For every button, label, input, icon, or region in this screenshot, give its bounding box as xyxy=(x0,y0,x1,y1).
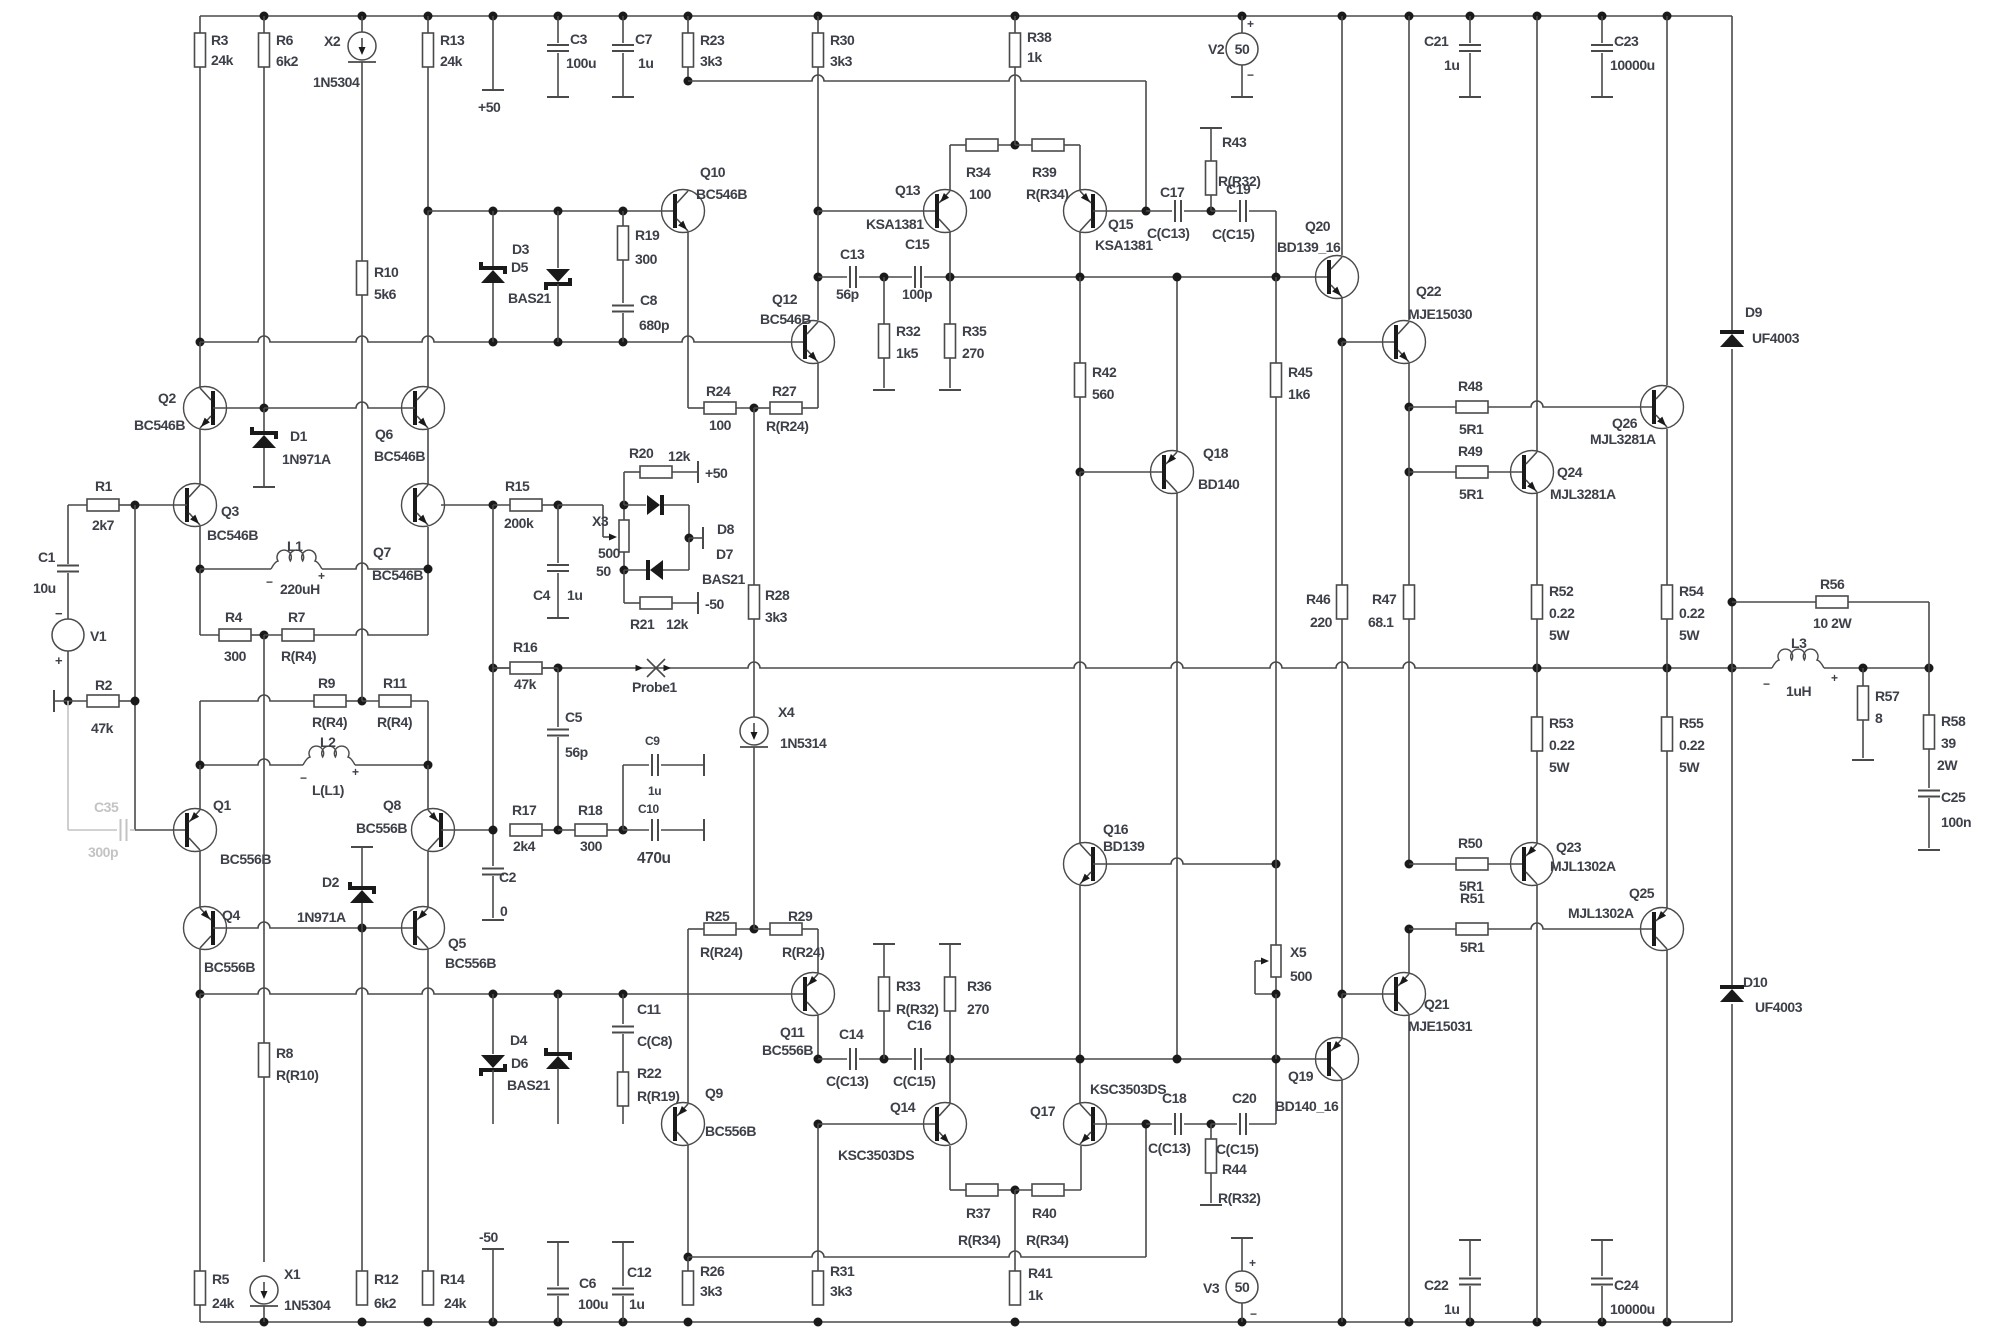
resistor R32 xyxy=(873,277,921,390)
resistor R10 xyxy=(357,261,399,701)
resistor R23 xyxy=(683,16,725,81)
svg-text:BAS21: BAS21 xyxy=(508,290,552,306)
node C19 right junction xyxy=(1272,273,1281,282)
svg-text:0.22: 0.22 xyxy=(1549,737,1575,753)
resistor R12 xyxy=(357,928,399,1311)
svg-text:Q8: Q8 xyxy=(383,797,401,813)
svg-text:X5: X5 xyxy=(1290,944,1307,960)
capacitor C4 xyxy=(533,505,582,618)
svg-text:3k3: 3k3 xyxy=(830,1283,853,1299)
node top bus junction xyxy=(424,12,433,21)
svg-text:MJL1302A: MJL1302A xyxy=(1550,858,1616,874)
node bottom bus junction xyxy=(1011,1318,1020,1327)
svg-text:L1: L1 xyxy=(287,538,303,554)
svg-text:1u: 1u xyxy=(638,55,653,71)
svg-text:5k6: 5k6 xyxy=(374,286,397,302)
wire Q22 base lead xyxy=(1342,341,1396,343)
svg-text:R23: R23 xyxy=(700,32,725,48)
svg-text:6k2: 6k2 xyxy=(374,1295,397,1311)
resistor R7 xyxy=(264,527,428,664)
node Q14 base junction xyxy=(814,1120,823,1129)
svg-text:1u: 1u xyxy=(1444,57,1459,73)
svg-text:R27: R27 xyxy=(772,383,797,399)
svg-text:+: + xyxy=(1249,1256,1256,1270)
svg-text:C14: C14 xyxy=(839,1026,864,1042)
svg-text:D3: D3 xyxy=(512,241,530,257)
svg-text:10000u: 10000u xyxy=(1610,1301,1655,1317)
svg-text:3k3: 3k3 xyxy=(830,53,853,69)
current source X2 xyxy=(313,16,376,261)
svg-text:C11: C11 xyxy=(637,1001,661,1017)
svg-text:R41: R41 xyxy=(1028,1265,1053,1281)
svg-text:+50: +50 xyxy=(705,465,728,481)
svg-text:300p: 300p xyxy=(88,844,118,860)
transistor Q2 xyxy=(134,342,264,484)
wire upper bias bus y211 xyxy=(428,211,674,387)
node top bus junction xyxy=(358,12,367,21)
svg-text:KSC3503DS: KSC3503DS xyxy=(1090,1081,1166,1097)
svg-text:D10: D10 xyxy=(1743,974,1768,990)
capacitor C35 (disabled) xyxy=(68,701,135,860)
node top bus junction xyxy=(1405,12,1414,21)
wire x493 vertical xyxy=(492,505,494,830)
transistor Q15 xyxy=(1064,190,1154,278)
svg-text:R6: R6 xyxy=(276,32,294,48)
node top bus junction xyxy=(1466,12,1475,21)
svg-text:12k: 12k xyxy=(666,616,689,632)
inductor L1 xyxy=(200,538,428,597)
node top bus junction xyxy=(619,12,628,21)
svg-text:BC556B: BC556B xyxy=(204,959,255,975)
node lower bias junction xyxy=(554,990,563,999)
svg-text:Q6: Q6 xyxy=(375,426,393,442)
node X3 bottom junction xyxy=(620,566,629,575)
svg-text:Q17: Q17 xyxy=(1030,1103,1056,1119)
resistor R27 xyxy=(754,363,818,434)
wire bottom supply bus xyxy=(200,1004,1732,1322)
svg-text:R32: R32 xyxy=(896,323,921,339)
svg-text:Q11: Q11 xyxy=(780,1024,805,1040)
node upper bias junction xyxy=(489,207,498,216)
node Q18 emitter junction xyxy=(1173,273,1182,282)
resistor R40 xyxy=(1015,1146,1081,1248)
svg-text:500: 500 xyxy=(1290,968,1313,984)
svg-text:68.1: 68.1 xyxy=(1368,614,1394,630)
svg-text:L(L1): L(L1) xyxy=(312,782,344,798)
node bottom bus junction xyxy=(260,1318,269,1327)
svg-text:R56: R56 xyxy=(1820,576,1845,592)
svg-text:0.22: 0.22 xyxy=(1549,605,1575,621)
svg-text:R17: R17 xyxy=(512,802,537,818)
svg-text:MJE15030: MJE15030 xyxy=(1408,306,1473,322)
node V1-R2 junction xyxy=(64,697,73,706)
svg-text:KSC3503DS: KSC3503DS xyxy=(838,1147,914,1163)
capacitor C1 xyxy=(33,505,79,619)
svg-text:C10: C10 xyxy=(638,802,659,816)
svg-text:R22: R22 xyxy=(637,1065,662,1081)
node bottom bus junction xyxy=(1598,1318,1607,1327)
node bottom bus junction xyxy=(619,1318,628,1327)
probe Probe1 xyxy=(632,659,677,695)
svg-text:X4: X4 xyxy=(778,704,795,720)
transistor Q25 xyxy=(1568,885,1684,1322)
svg-text:R4: R4 xyxy=(225,609,243,625)
wire R24 corner xyxy=(688,407,704,409)
svg-text:100p: 100p xyxy=(902,286,932,302)
transistor Q7 xyxy=(372,484,493,584)
resistor R4 xyxy=(219,609,264,664)
svg-text:300: 300 xyxy=(224,648,247,664)
node D1 junction xyxy=(260,404,269,413)
svg-text:−: − xyxy=(266,575,273,589)
resistor R31 xyxy=(813,1124,855,1305)
svg-text:100u: 100u xyxy=(578,1296,608,1312)
wire base link vertical x135 xyxy=(135,505,187,830)
node R13-Q6 junction xyxy=(424,207,433,216)
resistor R24 xyxy=(704,383,754,433)
svg-text:Q21: Q21 xyxy=(1424,996,1450,1012)
resistor R54 xyxy=(1662,583,1706,668)
svg-text:3k3: 3k3 xyxy=(700,1283,723,1299)
svg-text:+: + xyxy=(1831,671,1838,685)
resistor R18 xyxy=(558,802,623,854)
wire Q21 base lead xyxy=(1342,993,1396,995)
svg-text:R9: R9 xyxy=(318,675,336,691)
svg-text:C15: C15 xyxy=(905,236,930,252)
node top bus junction xyxy=(554,12,563,21)
svg-text:R18: R18 xyxy=(578,802,603,818)
svg-text:C2: C2 xyxy=(499,869,517,885)
svg-text:D5: D5 xyxy=(511,259,529,275)
svg-text:C21: C21 xyxy=(1424,33,1449,49)
capacitor C3 xyxy=(547,16,596,97)
capacitor C20 xyxy=(1211,1059,1276,1157)
capacitor C21 xyxy=(1424,16,1481,97)
svg-text:R42: R42 xyxy=(1092,364,1117,380)
svg-text:R(R24): R(R24) xyxy=(782,944,824,960)
svg-text:−: − xyxy=(55,606,63,621)
svg-text:BD140_16: BD140_16 xyxy=(1275,1098,1339,1114)
svg-text:R(R19): R(R19) xyxy=(637,1088,679,1104)
node C13-C15 junction xyxy=(880,273,889,282)
svg-text:R19: R19 xyxy=(635,227,660,243)
resistor R39 xyxy=(1015,139,1080,202)
svg-text:R8: R8 xyxy=(276,1045,294,1061)
svg-text:+: + xyxy=(1247,17,1254,31)
svg-text:500: 500 xyxy=(598,545,621,561)
resistor R48 xyxy=(1409,378,1654,437)
svg-text:Q23: Q23 xyxy=(1556,839,1582,855)
svg-text:R39: R39 xyxy=(1032,164,1057,180)
capacitor C24 xyxy=(1591,1240,1655,1322)
node R2-Q1 junction xyxy=(131,697,140,706)
node L1 right xyxy=(424,565,433,574)
svg-text:R53: R53 xyxy=(1549,715,1574,731)
svg-text:D4: D4 xyxy=(510,1032,528,1048)
svg-text:Q14: Q14 xyxy=(890,1099,916,1115)
svg-text:0.22: 0.22 xyxy=(1679,737,1705,753)
capacitor C14 xyxy=(826,1026,868,1089)
svg-text:BC546B: BC546B xyxy=(374,448,425,464)
wire lower VAS row y1059 xyxy=(818,1058,1329,1060)
svg-text:Q20: Q20 xyxy=(1305,218,1331,234)
node top bus junction xyxy=(684,12,693,21)
resistor R52 xyxy=(1532,583,1576,668)
svg-text:5R1: 5R1 xyxy=(1460,939,1485,955)
node R15 right junction xyxy=(554,501,563,510)
node bottom bus junction xyxy=(1338,1318,1347,1327)
svg-text:Q26: Q26 xyxy=(1612,415,1638,431)
resistor R58 xyxy=(1924,668,1966,788)
node top bus junction xyxy=(489,12,498,21)
svg-text:Q1: Q1 xyxy=(213,797,231,813)
svg-text:X2: X2 xyxy=(324,33,341,49)
svg-text:V1: V1 xyxy=(90,628,107,644)
node R37-R40 junction xyxy=(1011,1186,1020,1195)
svg-text:R49: R49 xyxy=(1458,443,1483,459)
svg-text:R3: R3 xyxy=(211,32,229,48)
transistor Q1 xyxy=(174,765,272,907)
capacitor C17 xyxy=(1146,184,1211,241)
node top bus junction xyxy=(814,12,823,21)
inductor L2 xyxy=(200,734,428,798)
svg-text:1N971A: 1N971A xyxy=(297,909,346,925)
svg-text:0: 0 xyxy=(500,903,508,919)
resistor R56 xyxy=(1732,576,1929,668)
node R25-R29 junction xyxy=(750,925,759,934)
svg-text:R37: R37 xyxy=(966,1205,991,1221)
node Q13 base junction xyxy=(814,207,823,216)
transistor Q13 xyxy=(866,145,967,277)
svg-text:X3: X3 xyxy=(592,513,609,529)
node Q9-R26 junction xyxy=(684,1253,693,1262)
svg-text:Q15: Q15 xyxy=(1108,216,1134,232)
svg-text:R20: R20 xyxy=(629,445,654,461)
capacitor C10 xyxy=(623,802,704,867)
svg-text:C19: C19 xyxy=(1226,181,1251,197)
svg-text:R11: R11 xyxy=(383,675,407,691)
svg-text:C(C13): C(C13) xyxy=(1148,1140,1190,1156)
svg-text:BAS21: BAS21 xyxy=(507,1077,551,1093)
svg-text:R48: R48 xyxy=(1458,378,1483,394)
svg-text:MJL1302A: MJL1302A xyxy=(1568,905,1634,921)
svg-text:200k: 200k xyxy=(504,515,534,531)
resistor R46 xyxy=(1306,342,1348,994)
node R4-R7 junction xyxy=(260,631,269,640)
transistor Q4 xyxy=(184,907,416,995)
svg-text:R25: R25 xyxy=(705,908,730,924)
svg-text:R(R24): R(R24) xyxy=(766,418,808,434)
resistor R2 xyxy=(87,677,135,736)
wire R9 row xyxy=(200,695,314,765)
node R1-Q3 junction xyxy=(131,501,140,510)
svg-text:C4: C4 xyxy=(533,587,551,603)
svg-text:R10: R10 xyxy=(374,264,399,280)
svg-text:Q7: Q7 xyxy=(373,544,391,560)
svg-text:50: 50 xyxy=(1235,41,1250,57)
svg-text:−: − xyxy=(1763,677,1770,691)
svg-text:470u: 470u xyxy=(637,850,671,867)
resistor R14 xyxy=(423,949,467,1311)
resistor R6 xyxy=(259,16,299,408)
node R43 bottom junction xyxy=(1207,207,1216,216)
inductor L3 xyxy=(1732,635,1838,699)
capacitor C12 xyxy=(612,1242,652,1322)
transistor Q23 xyxy=(1511,839,1616,1322)
svg-text:R(R4): R(R4) xyxy=(281,648,316,664)
svg-text:UF4003: UF4003 xyxy=(1752,330,1800,346)
node upper bias junction xyxy=(619,207,628,216)
node top bus junction xyxy=(1238,12,1247,21)
svg-text:Q4: Q4 xyxy=(222,907,240,923)
node R16 left junction xyxy=(0,0,1,1)
potentiometer X5 xyxy=(1255,864,1313,994)
svg-text:BC546B: BC546B xyxy=(760,311,811,327)
svg-text:R54: R54 xyxy=(1679,583,1704,599)
svg-text:C(C13): C(C13) xyxy=(826,1073,868,1089)
svg-text:56p: 56p xyxy=(836,286,859,302)
svg-text:−: − xyxy=(1250,1307,1257,1321)
svg-text:47k: 47k xyxy=(514,676,537,692)
svg-text:R31: R31 xyxy=(830,1263,855,1279)
node bias bus junction xyxy=(489,338,498,347)
svg-text:1N971A: 1N971A xyxy=(282,451,331,467)
node bottom bus junction xyxy=(1238,1318,1247,1327)
terminal input port xyxy=(54,690,87,712)
svg-text:D9: D9 xyxy=(1745,304,1763,320)
svg-text:R58: R58 xyxy=(1941,713,1966,729)
wire X5 to Q19 base xyxy=(1275,994,1277,1059)
svg-text:BAS21: BAS21 xyxy=(702,571,746,587)
svg-text:5R1: 5R1 xyxy=(1459,486,1484,502)
svg-text:2W: 2W xyxy=(1937,757,1958,773)
resistor R47 xyxy=(1368,472,1415,864)
capacitor C5 xyxy=(547,668,588,830)
node bottom bus junction xyxy=(1405,1318,1414,1327)
svg-text:KSA1381: KSA1381 xyxy=(866,216,924,232)
svg-text:5W: 5W xyxy=(1549,759,1570,775)
svg-text:Probe1: Probe1 xyxy=(632,679,677,695)
resistor R44 xyxy=(1200,1124,1260,1206)
resistor R36 xyxy=(939,944,992,1059)
svg-text:C(C15): C(C15) xyxy=(1212,226,1254,242)
transistor Q10 xyxy=(662,164,748,408)
svg-text:R24: R24 xyxy=(706,383,731,399)
resistor R22 xyxy=(618,1065,680,1124)
resistor R16 xyxy=(493,639,558,692)
svg-text:8: 8 xyxy=(1875,710,1883,726)
svg-text:C18: C18 xyxy=(1162,1090,1187,1106)
svg-text:R34: R34 xyxy=(966,164,991,180)
svg-text:1k5: 1k5 xyxy=(896,345,919,361)
transistor Q16 xyxy=(1064,821,1277,1059)
svg-text:KSA1381: KSA1381 xyxy=(1095,237,1153,253)
svg-text:R52: R52 xyxy=(1549,583,1574,599)
node bottom bus junction xyxy=(814,1318,823,1327)
svg-text:C(C15): C(C15) xyxy=(1216,1141,1258,1157)
resistor R11 xyxy=(362,675,428,765)
svg-text:D1: D1 xyxy=(290,428,308,444)
resistor R55 xyxy=(1662,668,1706,908)
svg-text:50: 50 xyxy=(1235,1279,1250,1295)
svg-text:R13: R13 xyxy=(440,32,465,48)
node R51 junction xyxy=(1405,925,1414,934)
node bottom bus junction xyxy=(1533,1318,1542,1327)
svg-text:R15: R15 xyxy=(505,478,530,494)
svg-text:12k: 12k xyxy=(668,448,691,464)
svg-text:D6: D6 xyxy=(511,1055,529,1071)
node R24-R27 junction xyxy=(750,404,759,413)
capacitor C13 xyxy=(836,246,865,302)
svg-text:R14: R14 xyxy=(440,1271,465,1287)
capacitor C8 xyxy=(612,292,669,342)
svg-text:1k: 1k xyxy=(1027,49,1042,65)
svg-text:R26: R26 xyxy=(700,1263,725,1279)
svg-text:1k6: 1k6 xyxy=(1288,386,1311,402)
svg-text:UF4003: UF4003 xyxy=(1755,999,1803,1015)
svg-text:2k7: 2k7 xyxy=(92,517,115,533)
node Q18 collector junction xyxy=(1173,1055,1182,1064)
node top bus junction xyxy=(1533,12,1542,21)
node R18-C10 junction xyxy=(619,826,628,835)
resistor R45 xyxy=(1271,277,1313,864)
node Q11 collector junction xyxy=(814,1055,823,1064)
node output bus junction xyxy=(554,664,563,673)
resistor R38 xyxy=(1010,16,1052,67)
svg-text:R29: R29 xyxy=(788,908,813,924)
svg-text:1u: 1u xyxy=(629,1296,644,1312)
node bottom bus junction xyxy=(424,1318,433,1327)
svg-text:560: 560 xyxy=(1092,386,1115,402)
diode D3 xyxy=(481,211,530,342)
svg-text:Q12: Q12 xyxy=(772,291,798,307)
node bottom bus junction xyxy=(358,1318,367,1327)
wire Q18 base lead xyxy=(1080,472,1164,843)
svg-text:100u: 100u xyxy=(566,55,596,71)
svg-text:5W: 5W xyxy=(1679,627,1700,643)
svg-text:R(R32): R(R32) xyxy=(1218,1190,1260,1206)
node D2 base junction xyxy=(358,924,367,933)
transistor Q8 xyxy=(356,765,493,907)
svg-text:Q13: Q13 xyxy=(895,182,921,198)
source V3 xyxy=(1203,1238,1258,1322)
node upper bias junction xyxy=(554,207,563,216)
node R49 junction xyxy=(1405,468,1414,477)
svg-text:R(R10): R(R10) xyxy=(276,1067,318,1083)
svg-text:+: + xyxy=(318,569,325,583)
resistor R41 xyxy=(1010,1190,1053,1305)
node bottom bus junction xyxy=(554,1318,563,1327)
node Q17 collector junction xyxy=(1076,1055,1085,1064)
svg-text:X1: X1 xyxy=(284,1266,301,1282)
zener D2 xyxy=(297,847,374,928)
svg-text:Q22: Q22 xyxy=(1416,283,1442,299)
node Q12 collector junction xyxy=(814,273,823,282)
svg-text:C20: C20 xyxy=(1232,1090,1257,1106)
svg-text:R21: R21 xyxy=(630,616,655,632)
transistor Q19 xyxy=(1275,994,1359,1322)
node output bus junction xyxy=(489,664,498,673)
transistor Q20 xyxy=(1277,16,1359,342)
node C15 right junction xyxy=(946,273,955,282)
source V1 xyxy=(52,606,107,701)
svg-text:C1: C1 xyxy=(38,549,56,565)
svg-text:100: 100 xyxy=(969,186,992,202)
svg-text:0.22: 0.22 xyxy=(1679,605,1705,621)
resistor R35 xyxy=(939,277,987,390)
terminal +50 xyxy=(478,16,504,115)
node lower bias junction xyxy=(489,990,498,999)
